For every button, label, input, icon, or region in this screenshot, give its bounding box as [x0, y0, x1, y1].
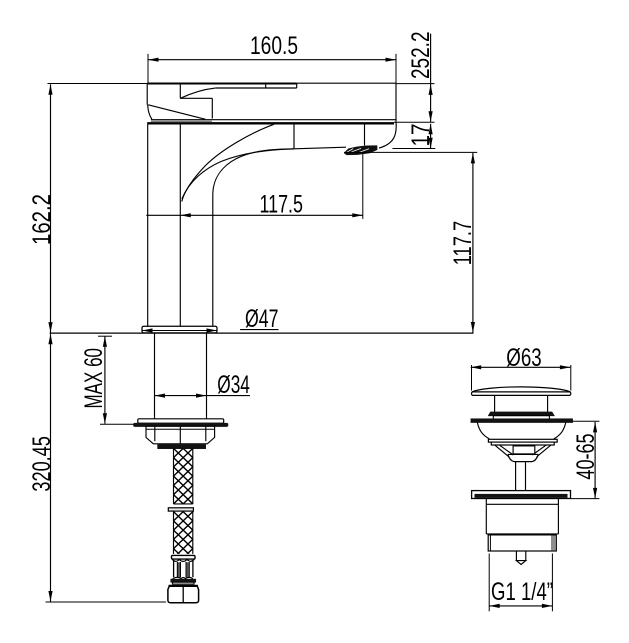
- faucet body edge vertical right of notch: [211, 98, 213, 118]
- dim O47 leader under text: [240, 329, 278, 331]
- dim 252.2 line: [430, 34, 432, 122]
- dim 162.2 extension top: [48, 83, 148, 85]
- dim 252.2 extension bottom: [394, 121, 435, 123]
- ferrule body walls: [174, 561, 193, 578]
- dim MAX60 arrow down: [103, 413, 107, 424]
- svg-text:252.2: 252.2: [407, 32, 435, 80]
- faucet body collar seam thin: [151, 119, 396, 121]
- drain G arrow right: [542, 604, 553, 608]
- drain G arrow left: [489, 604, 500, 608]
- hose middle band: [168, 508, 193, 511]
- dim 117.7 line: [472, 153, 474, 333]
- faucet spout nose curve: [379, 122, 396, 148]
- dim O34 arrow left: [155, 394, 166, 398]
- dim O47 line inside flange: [142, 330, 217, 332]
- dim 17 arrow up: [429, 124, 433, 135]
- faucet collar seam gray: [151, 120, 212, 122]
- drain 40-65 dim line: [594, 422, 596, 499]
- dim 160.5 arrow right: [386, 58, 397, 62]
- dim 160.5 extension left: [147, 54, 149, 84]
- faucet base flange: [142, 326, 217, 333]
- hose section1 left wall: [173, 448, 175, 504]
- svg-text:162.2: 162.2: [28, 194, 56, 245]
- svg-text:40-65: 40-65: [572, 433, 600, 479]
- drain O63 extension right: [570, 365, 572, 391]
- faucet handle front arc: [148, 105, 152, 120]
- drain O63 dim line: [471, 366, 571, 368]
- dim 17 extension bottom: [392, 148, 435, 150]
- dim 117.5 line: [146, 214, 362, 216]
- faucet aerator housing line: [364, 124, 366, 145]
- drain funnel left curve: [477, 422, 489, 439]
- drain funnel plate1: [488, 439, 557, 442]
- drain cap disc: [472, 392, 571, 396]
- dim 117.5 arrow right: [352, 213, 363, 217]
- mounting nut facet left: [146, 428, 215, 430]
- ferrule bottom dark band: [171, 579, 196, 582]
- drain O63 arrow left: [471, 365, 482, 369]
- drain body right: [557, 499, 559, 534]
- drain band2: [493, 416, 549, 420]
- faucet riser middle line: [179, 125, 181, 327]
- ferrule top flange: [172, 555, 196, 559]
- faucet bend S underside curve: [182, 149, 294, 199]
- faucet bend inner curve alpha: [182, 124, 274, 201]
- mounting nut facet right: [205, 426, 207, 441]
- mounting nut facet middle: [179, 426, 181, 444]
- faucet body top curve under lever: [180, 88, 215, 98]
- dim 160.5 extension right: [395, 54, 397, 83]
- faucet spout underside seam vertical: [293, 124, 295, 148]
- svg-text:160.5: 160.5: [250, 32, 298, 60]
- drain thread collar shade right: [551, 536, 556, 551]
- faucet handle slant bottom: [148, 105, 205, 120]
- mounting nut body: [146, 426, 215, 444]
- dim 117.7 arrow up: [471, 153, 475, 164]
- drain bowl top line: [508, 453, 539, 455]
- dim 252.2 arrow up: [429, 84, 433, 95]
- dim 320.45 line: [50, 334, 52, 602]
- faucet aerator white slits: [347, 148, 369, 152]
- faucet bend outer curve to spout underside: [213, 147, 346, 193]
- svg-text:17: 17: [407, 124, 435, 147]
- mounting nut collar dark: [158, 445, 206, 449]
- dim 117.5 extension right: [362, 153, 364, 219]
- drain neck left: [494, 395, 496, 412]
- drain bowl taper: [508, 455, 539, 462]
- dim MAX60 arrow up: [103, 336, 107, 347]
- drain 40-65 arrow up: [593, 422, 597, 433]
- drain neck right: [547, 395, 549, 412]
- drain body shoulder seam: [486, 503, 558, 505]
- svg-text:G1 1/4”: G1 1/4”: [491, 578, 553, 606]
- mounting plate lower dark: [134, 423, 228, 426]
- drain G dim extension left: [488, 554, 490, 612]
- faucet riser left edge: [147, 125, 149, 327]
- dim 17 arrow down: [429, 138, 433, 149]
- mounting plate upper: [138, 419, 224, 423]
- dim MAX60 extension bottom: [100, 423, 134, 425]
- dim O47 arrow left: [142, 328, 153, 332]
- faucet lever blade underside: [215, 87, 297, 89]
- dim 160.5 line: [148, 59, 396, 61]
- shank threaded tube right: [206, 333, 208, 419]
- drain cone center box: [513, 446, 535, 454]
- svg-text:Ø34: Ø34: [217, 371, 250, 399]
- drain rim extension right: [573, 420, 600, 422]
- drain G dim extension right: [551, 554, 553, 612]
- drain cap dome: [472, 387, 571, 392]
- drain band1 dark: [488, 412, 554, 416]
- ferrule scallops top: [172, 559, 194, 561]
- counter mounting line: [50, 332, 474, 334]
- hose end hex nut: [168, 586, 199, 603]
- dim 320.45 arrow up: [48, 334, 52, 345]
- dim 252.2 arrow down: [429, 111, 433, 122]
- hose section1 right wall: [192, 448, 194, 504]
- faucet spout right end face: [395, 83, 397, 122]
- drain washer dark band: [475, 494, 568, 498]
- svg-text:320.45: 320.45: [28, 436, 56, 492]
- dim 320.45 extension bottom: [46, 601, 167, 603]
- dim O47 arrow right: [207, 328, 218, 332]
- dim 320.45 arrow down: [48, 591, 52, 602]
- dim 160.5 arrow left: [148, 58, 159, 62]
- dim MAX60 extension top: [98, 335, 112, 337]
- drain O63 arrow right: [560, 365, 571, 369]
- faucet riser right edge: [212, 193, 214, 326]
- hose section1 bottom edge: [174, 503, 193, 505]
- svg-text:Ø63: Ø63: [506, 344, 541, 372]
- svg-text:MAX 60: MAX 60: [80, 348, 108, 409]
- dim 162.2 arrow up: [48, 84, 52, 95]
- faucet lever blade top: [147, 83, 297, 85]
- dim 117.7 extension top aerator level: [344, 151, 477, 153]
- drain thread collar inner left line: [489, 535, 491, 551]
- hose nut center facet: [182, 587, 184, 603]
- faucet lever blade joint tick: [265, 84, 267, 89]
- drain cone inner struts: [500, 445, 546, 455]
- hose section2 left wall: [173, 511, 175, 554]
- faucet cartridge notch horizontal: [180, 97, 212, 99]
- ferrule rib shading: [178, 562, 180, 577]
- drain pin: [516, 551, 525, 561]
- drain stem: [516, 462, 526, 491]
- hose nut top dark edge: [169, 585, 198, 587]
- drain rim plate dark: [471, 419, 573, 423]
- dim O34 arrow right: [196, 394, 207, 398]
- drain body left: [485, 499, 487, 534]
- drain pin tip: [516, 561, 525, 565]
- dim 252.2 extension top: [396, 83, 435, 85]
- drain cone outer struts: [495, 445, 551, 457]
- dim O34 line: [155, 395, 251, 397]
- dim 17 line: [430, 124, 432, 149]
- faucet cartridge notch vertical: [179, 84, 181, 99]
- svg-text:117.5: 117.5: [260, 190, 304, 218]
- ferrule ribs: [177, 562, 189, 578]
- svg-text:Ø47: Ø47: [245, 305, 279, 333]
- svg-text:117.7: 117.7: [449, 221, 477, 266]
- faucet spout top line: [297, 82, 396, 84]
- dim 162.2 arrow down: [48, 322, 52, 333]
- drain 40-65 arrow down: [593, 488, 597, 499]
- dim 162.2 line: [50, 84, 52, 332]
- dim MAX60 line: [104, 336, 106, 424]
- drain thread collar: [488, 535, 556, 551]
- faucet main seam thick: [147, 122, 394, 124]
- drain G dim line: [489, 605, 552, 607]
- faucet handle front face: [146, 84, 148, 105]
- drain washer: [472, 491, 571, 499]
- faucet aerator outlet dark: [345, 146, 377, 155]
- drain O63 extension left: [471, 365, 473, 391]
- drain funnel plate2: [491, 442, 554, 445]
- faucet lever blade end: [296, 83, 298, 88]
- drain funnel right curve: [554, 422, 566, 439]
- shank threaded tube left: [154, 333, 156, 419]
- ferrule scallops bottom: [173, 577, 193, 578]
- dim 117.7 arrow down: [471, 322, 475, 333]
- ferrule thin band: [173, 582, 195, 584]
- hose section2 right wall: [192, 511, 194, 554]
- dim 117.5 arrow left: [180, 213, 191, 217]
- drain washer extension right: [571, 498, 600, 500]
- drain body bottom: [486, 533, 558, 535]
